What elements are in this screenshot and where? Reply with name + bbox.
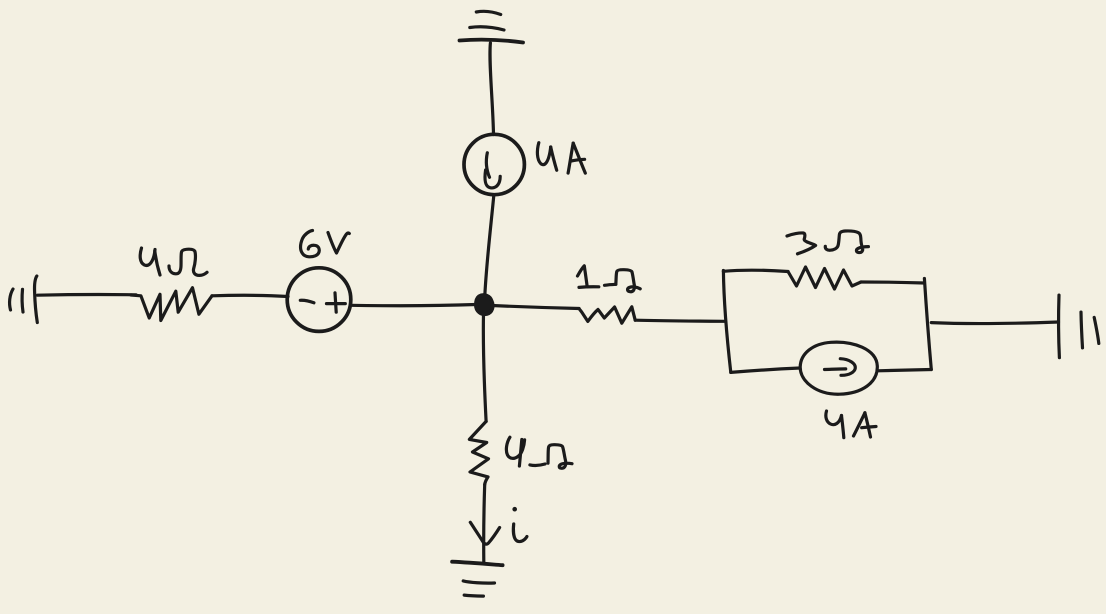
- label 3ohm: [787, 231, 868, 254]
- wire resistor to bottom ground: [482, 485, 486, 563]
- node (junction): [476, 295, 493, 314]
- label 6V: [301, 231, 350, 257]
- wire left ground to resistor 4ohm: [38, 293, 137, 297]
- label 1ohm: [578, 266, 641, 292]
- resistor R4 4ohm (bottom): [469, 421, 488, 484]
- voltage source V1 6V: [287, 268, 351, 332]
- wire box bottom edge left part: [731, 368, 800, 372]
- wire box right edge: [924, 279, 931, 370]
- wire node to resistor 4ohm bottom: [483, 314, 486, 422]
- ground (right): [1059, 295, 1099, 358]
- ground (left): [10, 276, 38, 323]
- label 4A (top current source): [537, 143, 585, 173]
- wire box top edge left part: [723, 270, 788, 271]
- current source I2: [800, 342, 877, 394]
- label 4ohm (left): [140, 248, 207, 275]
- wire node to resistor 1ohm: [492, 306, 579, 309]
- wire current source to node: [485, 196, 494, 297]
- wire box to right ground: [931, 322, 1058, 324]
- resistor R3 3ohm: [788, 267, 861, 289]
- label i: [512, 507, 527, 542]
- ground (top): [460, 11, 524, 42]
- label 4A (bottom current source): [826, 411, 876, 438]
- wire 1ohm to parallel box: [635, 320, 724, 321]
- wire box top edge right part: [861, 282, 924, 283]
- ground (bottom): [452, 562, 503, 596]
- resistor R1 4ohm (left): [131, 288, 212, 321]
- wire box bottom edge right part: [877, 370, 931, 371]
- current source U1: [464, 134, 524, 194]
- label 4ohm (bottom): [506, 437, 572, 468]
- wire box left edge: [723, 271, 730, 373]
- current arrow i: [470, 522, 499, 544]
- wire voltage source to node: [351, 305, 476, 306]
- resistor R2 1ohm: [579, 307, 635, 323]
- wire resistor to voltage source: [212, 295, 288, 296]
- wire top ground to current source: [490, 43, 494, 135]
